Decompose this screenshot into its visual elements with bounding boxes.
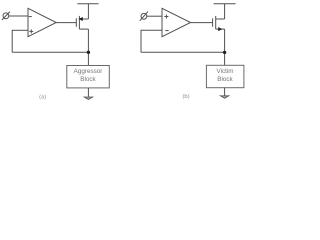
svg-text:Victim: Victim	[216, 68, 233, 75]
svg-text:(a): (a)	[39, 94, 46, 100]
svg-text:Block: Block	[217, 76, 233, 83]
svg-text:(b): (b)	[182, 94, 189, 100]
svg-text:Block: Block	[80, 76, 96, 83]
svg-text:Aggressor: Aggressor	[74, 68, 103, 75]
